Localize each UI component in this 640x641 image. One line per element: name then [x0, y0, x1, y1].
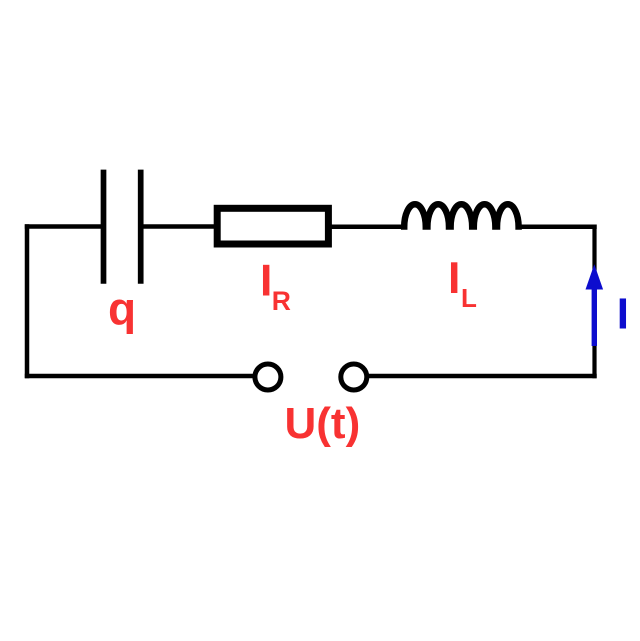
svg-text:I: I — [260, 257, 272, 306]
svg-text:L: L — [461, 283, 477, 313]
capacitor C (charge q): right plate — [138, 170, 144, 284]
wire: top-left horizontal from left rail to capacitor left plate — [25, 224, 101, 229]
wire: capacitor right plate to resistor — [144, 224, 218, 229]
wire: bottom horizontal, left segment to terminal — [25, 374, 254, 379]
capacitor C (charge q): left plate — [101, 170, 107, 284]
svg-text:I: I — [448, 254, 460, 303]
current arrow I (blue) head — [586, 264, 604, 289]
svg-text:U(t): U(t) — [285, 399, 361, 448]
wire: bottom horizontal, right segment from terminal — [368, 374, 597, 379]
wire: right vertical rail — [592, 225, 596, 379]
resistor R (box) — [217, 208, 328, 244]
svg-text:I: I — [617, 290, 629, 339]
wire: left vertical rail — [25, 224, 30, 378]
svg-text:R: R — [272, 286, 291, 316]
inductor L (5 loops) — [404, 204, 518, 230]
current arrow I (blue) shaft — [592, 287, 597, 346]
wire: inductor to top-right corner — [516, 225, 597, 230]
svg-text:q: q — [108, 283, 136, 335]
wire: resistor to inductor — [331, 225, 405, 230]
terminal circle, left — [255, 364, 281, 390]
terminal circle, right — [341, 364, 367, 390]
